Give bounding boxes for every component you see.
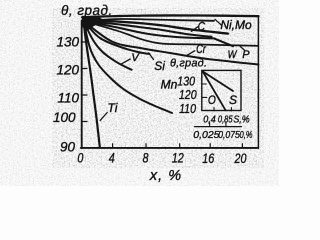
svg-text:110: 110	[179, 102, 196, 116]
svg-text:θ, град.: θ, град.	[61, 3, 113, 18]
curve Ti	[84, 21, 100, 147]
svg-text:0: 0	[77, 150, 83, 165]
x-axis	[81, 147, 257, 149]
svg-text:110: 110	[57, 91, 79, 106]
inset lower tick 2	[225, 123, 227, 127]
leader Ni,Mo	[215, 19, 222, 25]
svg-text:S,%: S,%	[233, 114, 249, 126]
y tick 120	[82, 68, 87, 70]
svg-text:8: 8	[142, 150, 148, 165]
inset line S	[203, 72, 233, 92]
svg-text:S: S	[229, 93, 237, 107]
leader V	[122, 59, 131, 64]
svg-text:Ni,Mo: Ni,Mo	[220, 18, 252, 32]
svg-text:x, %: x, %	[149, 168, 182, 184]
y tick 110	[82, 94, 87, 96]
svg-text:0,85: 0,85	[218, 113, 233, 124]
svg-text:16: 16	[202, 151, 214, 166]
x tick 4	[112, 144, 114, 148]
right border	[257, 16, 259, 148]
svg-text:130: 130	[177, 75, 195, 89]
svg-text:90: 90	[60, 139, 76, 154]
leader Si	[149, 53, 154, 60]
leader C	[192, 27, 198, 32]
svg-text:Ti: Ti	[108, 101, 118, 115]
svg-text:0,075: 0,075	[218, 129, 240, 141]
y-axis	[81, 21, 83, 149]
curve V	[84, 21, 132, 70]
inset lower scale axis	[195, 126, 242, 128]
x tick 20	[241, 144, 243, 148]
svg-text:4: 4	[109, 150, 115, 165]
svg-text:12: 12	[172, 150, 184, 165]
convergence blob	[82, 16, 104, 31]
inset line O	[203, 72, 226, 111]
svg-text:120: 120	[179, 88, 197, 102]
svg-text:0,%: 0,%	[239, 129, 252, 140]
curve C	[84, 21, 229, 34]
leader Ti	[100, 113, 107, 121]
curve W upper	[84, 21, 212, 37]
leader Cr	[186, 51, 194, 56]
curve Mo	[84, 19, 215, 21]
inset bottom tick 2	[230, 108, 232, 112]
svg-text:W: W	[228, 49, 238, 61]
leader P	[240, 46, 244, 50]
curve P	[84, 21, 258, 46]
svg-text:Mn: Mn	[161, 78, 178, 92]
svg-text:Si: Si	[154, 59, 165, 73]
svg-text:100: 100	[53, 110, 76, 125]
svg-text:0,4: 0,4	[203, 114, 216, 126]
curve Cr	[84, 21, 259, 65]
curve Ni,Mo	[82, 15, 259, 17]
svg-text:0,025: 0,025	[193, 129, 219, 141]
svg-text:O: O	[208, 94, 216, 107]
curve Mn	[84, 21, 173, 113]
inset tick 120	[202, 96, 207, 98]
inset frame	[202, 70, 241, 110]
inset tick 130	[202, 83, 207, 85]
inset bottom tick 1	[213, 108, 215, 112]
curve Si	[84, 21, 150, 54]
svg-text:C: C	[198, 21, 206, 34]
svg-text:20: 20	[234, 151, 247, 166]
y tick 100	[82, 121, 87, 123]
x tick 8	[145, 144, 147, 148]
curve W	[84, 21, 234, 46]
x tick 16	[209, 144, 211, 148]
svg-text:120: 120	[56, 63, 79, 78]
svg-text:θ,град.: θ,град.	[170, 58, 207, 70]
y tick 130	[82, 41, 87, 43]
inset lower tick 1	[209, 123, 211, 127]
svg-text:130: 130	[56, 34, 79, 49]
svg-text:P: P	[242, 49, 250, 61]
x tick 12	[179, 144, 181, 148]
svg-text:Cr: Cr	[196, 44, 206, 56]
